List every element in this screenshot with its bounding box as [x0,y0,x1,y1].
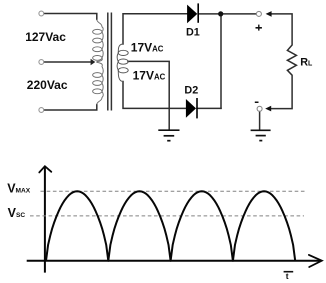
svg-text:VSC: VSC [8,206,26,220]
svg-text:D1: D1 [186,26,200,38]
svg-text:17VAC: 17VAC [133,69,166,83]
svg-text:VMAX: VMAX [7,182,31,196]
svg-text:17VAC: 17VAC [131,40,164,54]
svg-text:D2: D2 [184,84,198,96]
svg-text:220Vac: 220Vac [27,78,68,92]
svg-text:t: t [286,271,289,281]
svg-text:127Vac: 127Vac [25,30,66,44]
svg-text:RL: RL [300,57,313,69]
